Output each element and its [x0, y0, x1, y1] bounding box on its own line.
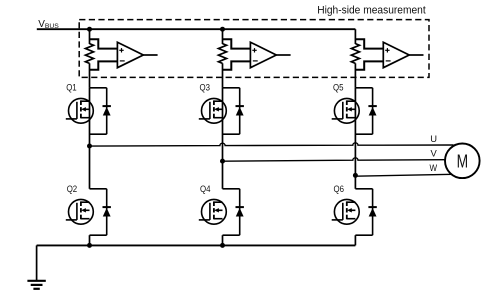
- transistor Q6 (low-side NMOS): [332, 199, 359, 224]
- label Q2: [67, 184, 78, 194]
- svg-text:Q2: Q2: [67, 184, 78, 194]
- label V: [431, 148, 438, 159]
- wire: phase 1 mid node to Q2: [89, 146, 91, 189]
- junction dot: phase 1 output node: [87, 144, 92, 149]
- svg-text:M: M: [457, 151, 469, 171]
- wire: shunt R1 top tap to op-amp + input: [90, 39, 118, 48]
- transistor Q3 (high-side NMOS): [199, 98, 227, 123]
- transistor Q5 (high-side NMOS): [332, 98, 359, 123]
- transistor Q4 (low-side NMOS): [199, 199, 227, 224]
- wire: phase 3 mid node to Q6: [354, 175, 356, 188]
- junction dot: phase 2 output node: [220, 159, 225, 164]
- wire: phase 3 column, bus to shunt: [354, 29, 356, 44]
- label W: [430, 162, 438, 173]
- wire: phase 1 column through Q1 to mid node: [89, 88, 91, 146]
- label: High-side measurement: [317, 5, 426, 17]
- svg-text:Q3: Q3: [200, 82, 211, 92]
- diode: body diode of Q5: [355, 88, 376, 134]
- label Q3: [200, 82, 211, 92]
- svg-text:Q4: Q4: [200, 184, 211, 194]
- wire: shunt R2 top tap to op-amp + input: [223, 39, 251, 48]
- label Q5: [333, 82, 344, 92]
- wire: shunt R3 top tap to op-amp + input: [355, 39, 383, 48]
- svg-text:Q6: Q6: [334, 184, 345, 194]
- wire: shunt R1 bottom tap to op-amp - input: [90, 61, 118, 69]
- label VBUS: [38, 19, 59, 30]
- wire: phase W output line: [355, 174, 452, 176]
- diode: body diode of Q4: [223, 189, 244, 235]
- transistor Q2 (low-side NMOS): [66, 199, 94, 224]
- wire: phase 2 column through Q3 to mid node: [222, 88, 224, 161]
- wire: ground rail drop: [36, 245, 38, 280]
- wire: phase 1 column, shunt to Q1: [89, 63, 91, 88]
- svg-text:High-side measurement: High-side measurement: [317, 5, 426, 17]
- wire: Q2 source to ground rail: [89, 235, 91, 245]
- wire: shunt R2 bottom tap to op-amp - input: [223, 61, 251, 69]
- junction dot: Q2 source / ground rail: [87, 243, 92, 248]
- transistor Q1 (high-side NMOS): [66, 98, 94, 123]
- wire: phase U output line: [90, 143, 454, 146]
- wire: ground rail: [37, 244, 356, 246]
- wire: phase V output line: [223, 158, 446, 161]
- diode: body diode of Q3: [223, 88, 244, 134]
- wire: Q4 source to ground rail: [222, 235, 224, 245]
- op-amp U1 (current-sense amplifier): [117, 42, 143, 67]
- label Q1: [66, 82, 77, 92]
- wire: op-amp U3 output: [409, 54, 423, 56]
- label U: [430, 133, 437, 144]
- resistor: shunt R3 (high-side): [351, 44, 359, 64]
- svg-text:Q1: Q1: [66, 82, 77, 92]
- wire: phase 2 column, shunt to Q3: [222, 63, 224, 88]
- ground: [27, 281, 45, 289]
- svg-text:W: W: [430, 162, 438, 173]
- diode: body diode of Q6: [355, 189, 376, 235]
- label Q4: [200, 184, 211, 194]
- wire: phase 3 column, shunt to Q5: [354, 63, 356, 88]
- diode: body diode of Q1: [90, 88, 111, 134]
- wire: phase 2 mid node to Q4: [222, 161, 224, 189]
- dashed box: high-side measurement region: [79, 20, 429, 78]
- wire: phase 2 column, bus to shunt: [222, 29, 224, 44]
- resistor: shunt R2 (high-side): [218, 44, 226, 64]
- junction dot: bus / phase 1: [87, 27, 92, 32]
- wire: phase 3 column through Q5 to mid node: [354, 88, 356, 176]
- op-amp U2 (current-sense amplifier): [250, 42, 276, 67]
- wire: op-amp U2 output: [276, 54, 290, 56]
- junction dot: Q4 source / ground rail: [220, 243, 225, 248]
- wire: shunt R3 bottom tap to op-amp - input: [355, 61, 383, 69]
- wire: op-amp U1 output: [143, 54, 157, 56]
- diode: body diode of Q2: [90, 189, 111, 235]
- junction dot: bus / phase 2: [220, 27, 225, 32]
- resistor: shunt R1 (high-side): [85, 44, 93, 64]
- svg-text:U: U: [430, 133, 437, 144]
- junction dot: phase 3 output node: [353, 173, 358, 178]
- motor M: [445, 144, 480, 179]
- wire: phase 1 column, bus to shunt: [89, 29, 91, 44]
- wire: Q6 source to ground rail: [354, 235, 356, 245]
- op-amp U3 (current-sense amplifier): [383, 42, 409, 67]
- svg-text:V: V: [431, 148, 438, 159]
- svg-text:Q5: Q5: [333, 82, 344, 92]
- wire: VBUS bus rail: [37, 28, 356, 30]
- label Q6: [334, 184, 345, 194]
